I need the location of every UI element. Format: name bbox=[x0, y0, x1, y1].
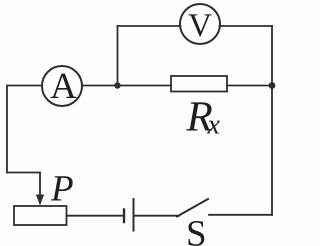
svg-text:V: V bbox=[188, 8, 212, 44]
wire middle left segment bbox=[7, 85, 42, 87]
wire bottom: battery to switch pivot bbox=[135, 215, 180, 217]
node junction dot right (middle wire joins right vertical) bbox=[269, 82, 276, 89]
wire rheostat wiper arrow shaft bbox=[39, 173, 41, 198]
wire top-left horizontal (junction riser to voltmeter) bbox=[118, 25, 181, 27]
wire riser from top wire down to middle junction bbox=[117, 26, 119, 86]
wire lower-left horizontal to rheostat arrow bbox=[7, 172, 40, 174]
battery cell long plate bbox=[133, 199, 135, 231]
node junction dot left (riser joins middle wire) bbox=[114, 82, 120, 88]
wire right vertical bbox=[271, 26, 273, 215]
resistor Rx body bbox=[171, 76, 227, 92]
ammeter A1 circle bbox=[42, 66, 82, 106]
svg-text:S: S bbox=[186, 214, 207, 246]
wire bottom: rheostat to battery bbox=[67, 215, 124, 217]
svg-text:A: A bbox=[50, 66, 77, 107]
wire top-right horizontal (voltmeter to right corner) bbox=[220, 25, 273, 27]
battery cell short plate bbox=[123, 210, 125, 223]
svg-text:x: x bbox=[207, 110, 221, 141]
switch S blade bbox=[177, 199, 208, 217]
wire middle resistor-to-right segment bbox=[227, 85, 272, 87]
svg-text:P: P bbox=[50, 169, 74, 210]
wire left vertical bbox=[6, 86, 8, 173]
rheostat P wiper arrowhead bbox=[36, 195, 44, 206]
rheostat P body bbox=[14, 206, 67, 225]
wire middle ammeter-to-resistor segment bbox=[82, 85, 171, 87]
voltmeter V1 circle bbox=[180, 4, 220, 44]
wire bottom: switch to right corner bbox=[209, 214, 272, 216]
